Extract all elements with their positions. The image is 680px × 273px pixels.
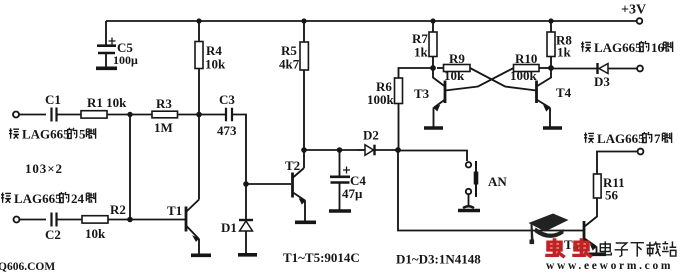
svg-text:R9: R9	[449, 51, 465, 66]
ground D1	[238, 253, 257, 257]
svg-text:10k: 10k	[444, 68, 465, 83]
wire	[20, 114, 47, 116]
resistor R8	[550, 21, 552, 68]
svg-text:10k: 10k	[205, 57, 226, 72]
switch AN	[466, 162, 471, 167]
resistor R9	[437, 67, 444, 69]
diode D3	[596, 63, 598, 74]
text jie LAG665 de 24 jiao	[1, 191, 96, 206]
svg-text:1k: 1k	[557, 45, 572, 60]
resistor R2	[82, 216, 108, 223]
svg-text:C2: C2	[45, 227, 61, 242]
resistor R11	[594, 174, 602, 198]
watermark bug chars	[545, 238, 591, 257]
terminal input 5pin	[13, 112, 19, 118]
svg-text:LAG665: LAG665	[22, 127, 70, 142]
capacitor C5	[105, 21, 107, 45]
capacitor C1	[52, 108, 57, 122]
svg-text:R10: R10	[515, 51, 537, 66]
terminal input 24pin	[14, 217, 20, 223]
node T2-collector row	[301, 147, 307, 153]
watermark dianzi xiazaizhan	[600, 241, 676, 256]
svg-text:100μ: 100μ	[113, 53, 138, 67]
ground T3	[424, 126, 443, 130]
ground T1	[191, 254, 211, 258]
svg-text:D3: D3	[594, 74, 610, 89]
svg-text:473: 473	[217, 123, 237, 138]
diode D2	[357, 149, 365, 151]
resistor R6	[399, 68, 434, 78]
svg-text:5: 5	[79, 127, 86, 142]
svg-text:47μ: 47μ	[342, 186, 363, 201]
capacitor C2	[52, 213, 57, 227]
node C3-D1-T2	[243, 181, 249, 187]
wire R10 to T3 base	[445, 68, 514, 91]
svg-text:R3: R3	[156, 96, 172, 111]
wire T5 base branch	[398, 150, 584, 231]
svg-text:T2: T2	[285, 158, 300, 173]
svg-text:T4: T4	[556, 85, 572, 100]
svg-text:LAG665: LAG665	[14, 191, 62, 206]
svg-text:D2: D2	[363, 128, 379, 143]
node R2-T1	[127, 217, 133, 223]
transistor T3	[444, 81, 447, 104]
transistor T5	[583, 221, 586, 244]
terminal 7pin	[638, 149, 644, 155]
node rail-R8	[548, 18, 553, 23]
svg-text:100k: 100k	[367, 92, 395, 107]
svg-text:LAG665: LAG665	[594, 40, 642, 55]
terminal 16pin	[637, 66, 643, 72]
wire R1 junction down	[129, 115, 131, 220]
terminal +3V	[637, 18, 643, 24]
capacitor C4	[339, 150, 341, 176]
node C4 top	[337, 147, 343, 153]
svg-text:24: 24	[71, 191, 85, 206]
ground C4	[329, 209, 351, 213]
svg-text:7: 7	[654, 131, 661, 146]
text jie LAG665 de 16 jiao	[581, 40, 673, 55]
node rail-R4	[196, 18, 201, 23]
svg-text:4k7: 4k7	[279, 57, 300, 72]
svg-text:T1~T5:9014C: T1~T5:9014C	[283, 250, 360, 265]
wire R9 to T4 base	[470, 68, 537, 91]
node D2-R6	[395, 147, 401, 153]
svg-text:+3V: +3V	[621, 3, 646, 18]
diode D1	[245, 184, 247, 219]
transistor T4	[535, 81, 538, 104]
ground T2	[295, 221, 316, 225]
svg-text:R2: R2	[110, 202, 126, 217]
ground C5	[96, 67, 117, 71]
svg-text:103×2: 103×2	[25, 161, 63, 176]
resistor R5	[303, 21, 305, 150]
svg-text:T3: T3	[414, 86, 430, 101]
svg-text:R1 10k: R1 10k	[87, 95, 127, 110]
svg-text:C1: C1	[45, 92, 61, 107]
svg-text:C3: C3	[219, 92, 235, 107]
svg-text:56: 56	[605, 188, 619, 203]
wire AN branch	[398, 151, 467, 162]
resistor R7	[432, 21, 434, 68]
svg-text:T1: T1	[167, 203, 182, 218]
node R1-R3	[127, 112, 132, 117]
text jie LAG665 de 7 jiao	[584, 131, 672, 146]
ground T4	[543, 126, 562, 130]
resistor R1	[81, 111, 107, 118]
svg-text:LAG665: LAG665	[597, 131, 645, 146]
node rail-R7	[430, 18, 435, 23]
resistor R4	[198, 21, 200, 115]
svg-text:D1: D1	[221, 220, 237, 235]
wire row150	[304, 149, 357, 151]
ground AN	[458, 209, 480, 213]
wire	[20, 219, 46, 221]
node R7-R9-T3	[430, 65, 436, 71]
node R3-C3-R4-T1	[196, 112, 202, 118]
svg-text:AN: AN	[488, 174, 507, 189]
ground T5	[588, 253, 606, 257]
wire D3 row	[551, 68, 597, 70]
svg-text:www.eeworm.com: www.eeworm.com	[546, 260, 673, 272]
svg-text:1M: 1M	[154, 120, 173, 135]
svg-text:1k: 1k	[414, 45, 429, 60]
svg-text:16: 16	[651, 40, 665, 55]
svg-text:10k: 10k	[85, 226, 106, 241]
node rail-R5	[301, 18, 306, 23]
watermark cap logo	[529, 214, 569, 245]
text jie LAG665 de 5 jiao	[9, 127, 96, 142]
transistor T2	[291, 173, 294, 198]
wire T2 base	[246, 183, 291, 185]
node R8-R10-T4-D3	[548, 65, 554, 71]
capacitor C3	[226, 108, 232, 121]
svg-text:Q606.COM: Q606.COM	[0, 261, 55, 273]
resistor R10	[514, 65, 540, 72]
svg-text:100k: 100k	[510, 68, 538, 83]
wire +3V top rail	[106, 20, 636, 22]
resistor R3	[152, 111, 178, 118]
transistor T1	[185, 207, 188, 232]
svg-text:D1~D3:1N4148: D1~D3:1N4148	[396, 252, 481, 267]
